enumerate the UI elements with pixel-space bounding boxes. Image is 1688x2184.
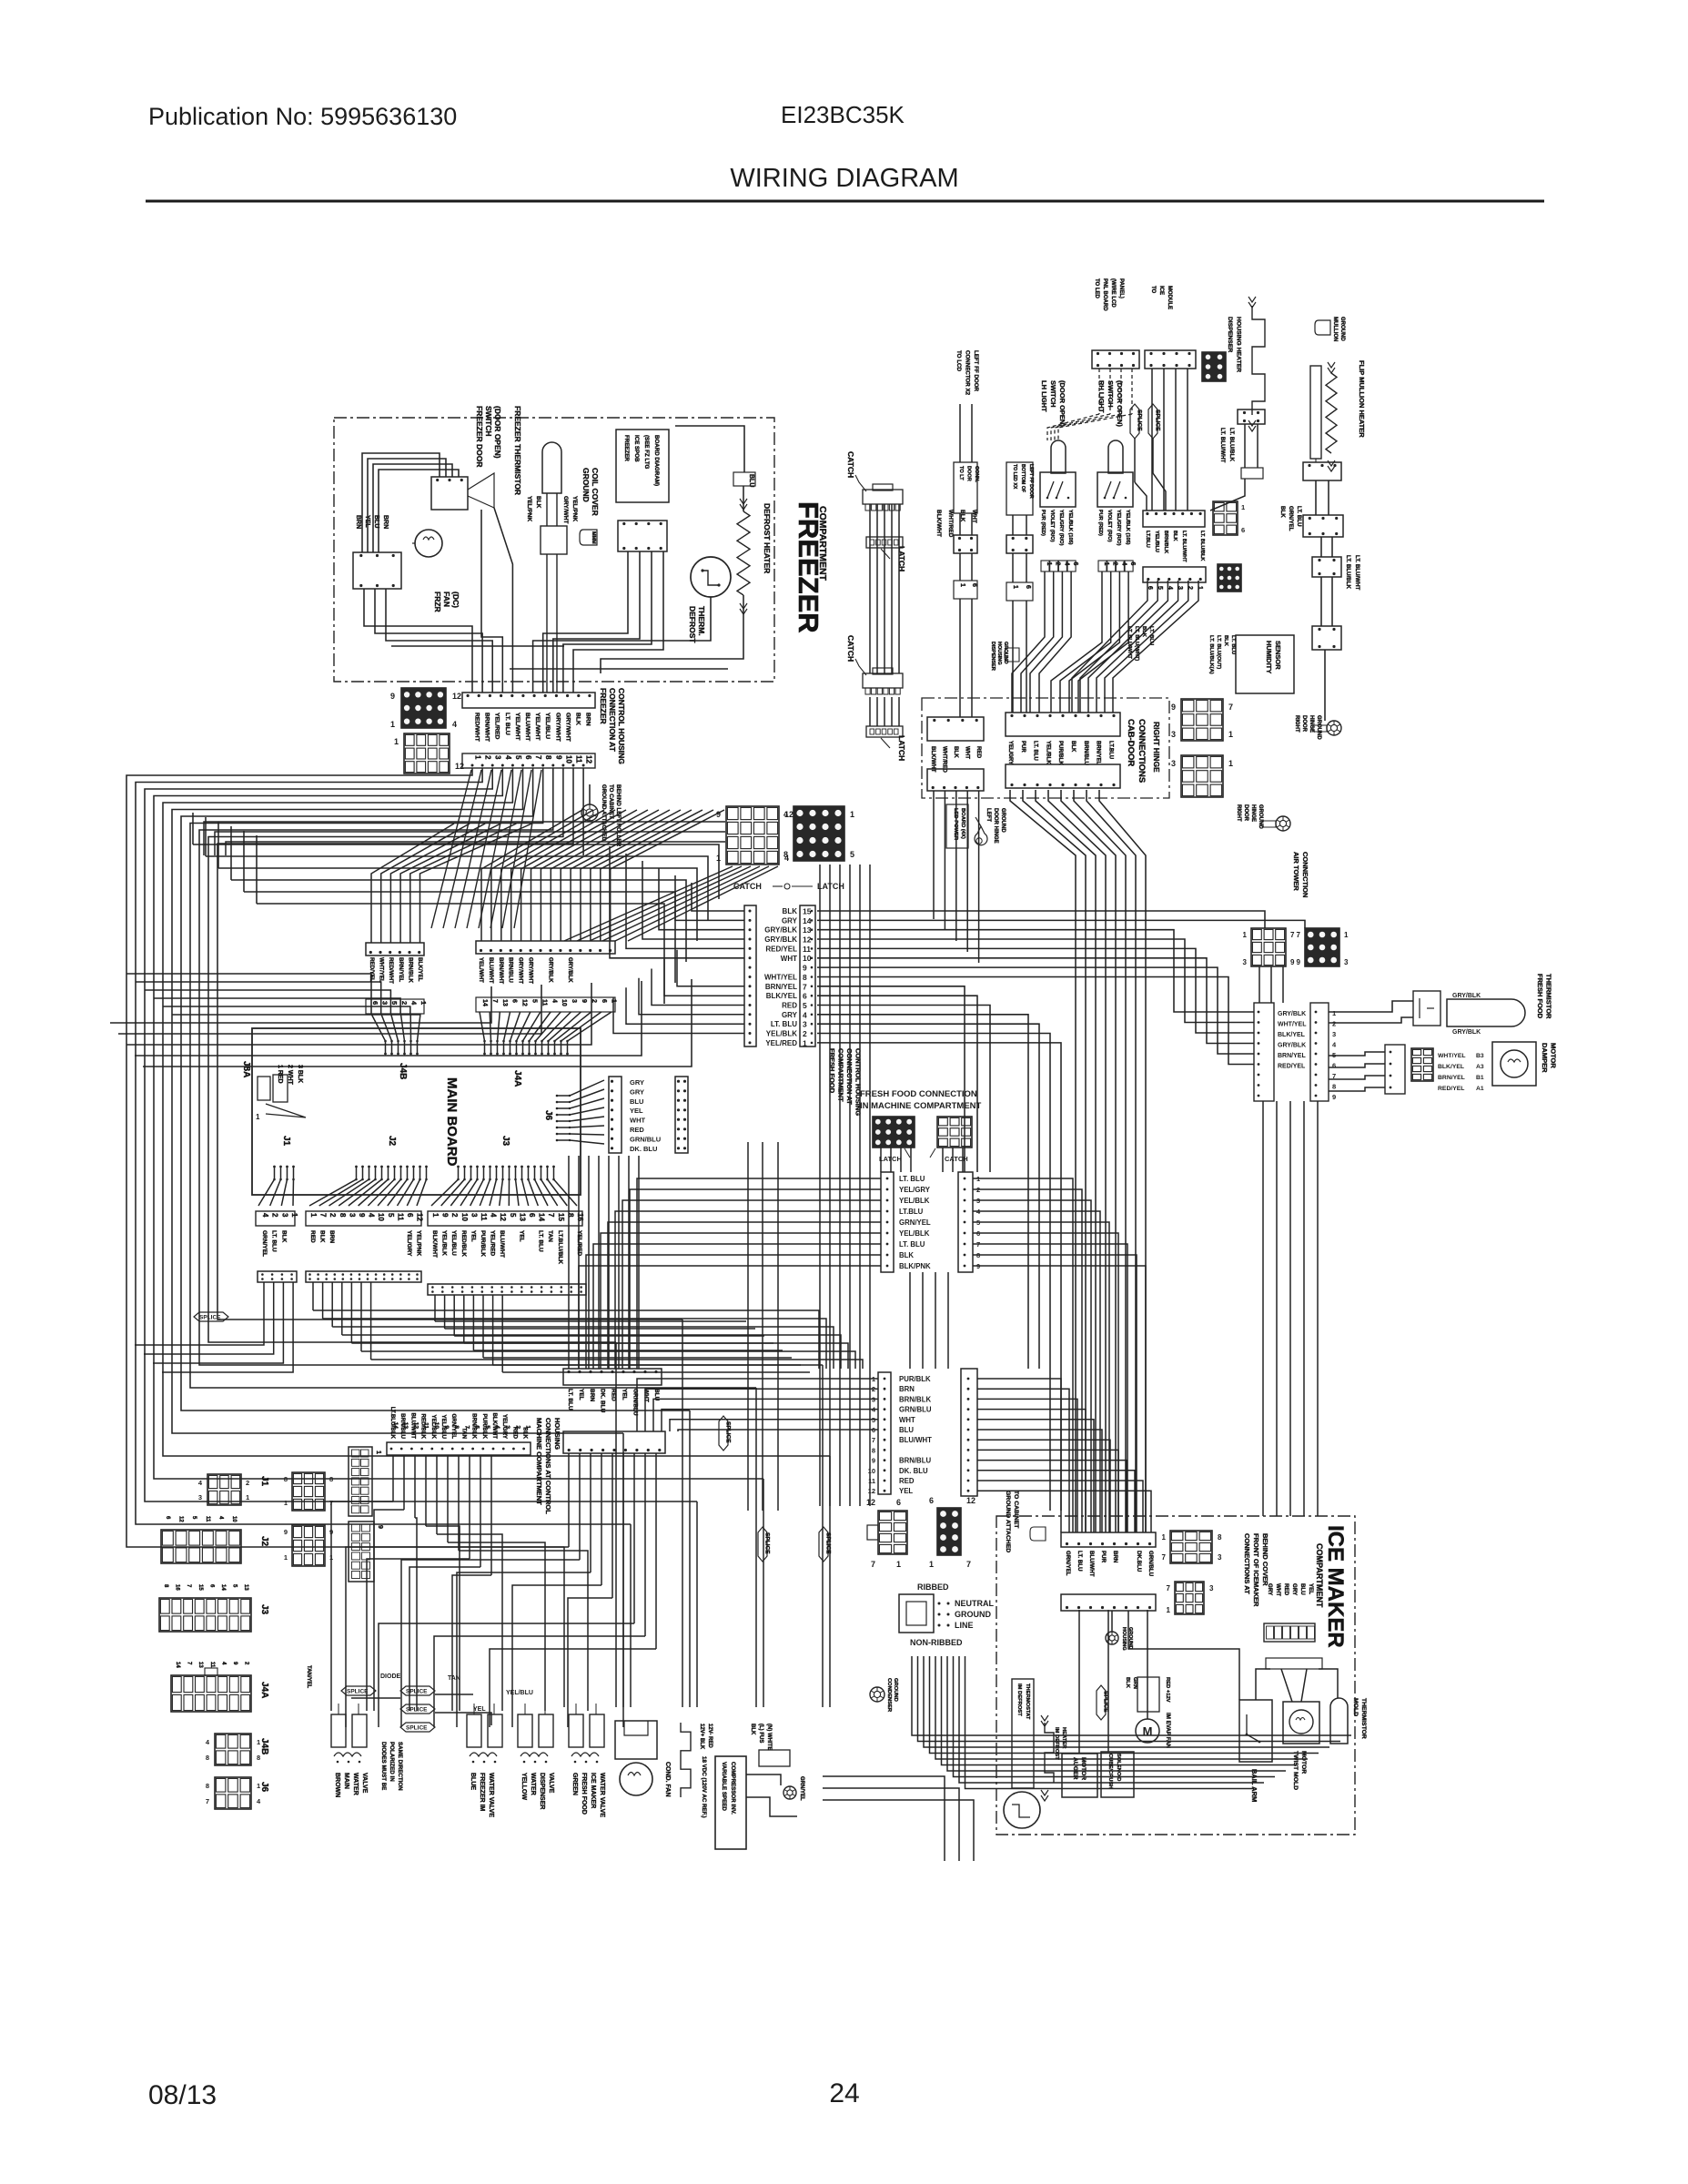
svg-text:GROUND: GROUND (1339, 317, 1345, 341)
svg-text:J2: J2 (387, 1136, 397, 1147)
svg-text:4: 4 (803, 1010, 807, 1019)
svg-text:RIGHT: RIGHT (1236, 804, 1241, 822)
svg-text:(DOOR OPEN): (DOOR OPEN) (493, 406, 502, 459)
svg-text:LT.BLU/BLK: LT.BLU/BLK (557, 1230, 563, 1264)
svg-text:11: 11 (480, 1213, 488, 1221)
svg-text:12: 12 (455, 762, 464, 771)
svg-text:GRY/BLK: GRY/BLK (1452, 1029, 1481, 1036)
svg-text:10: 10 (868, 1467, 875, 1475)
svg-text:SPLICE: SPLICE (199, 1315, 221, 1321)
svg-text:PUR (RED): PUR (RED) (1040, 510, 1046, 536)
svg-text:BLU: BLU (748, 474, 754, 487)
svg-text:9: 9 (390, 692, 395, 701)
svg-text:GRN/BLU: GRN/BLU (1147, 1551, 1154, 1577)
svg-text:BLU: BLU (630, 1097, 643, 1106)
svg-text:14: 14 (538, 1213, 546, 1221)
svg-text:YEL/GRY: YEL/GRY (899, 1186, 931, 1194)
svg-text:FREEZER THERMISTOR: FREEZER THERMISTOR (513, 406, 522, 495)
svg-text:THERMISTOR: THERMISTOR (1360, 1698, 1367, 1739)
svg-text:BLK/WHT: BLK/WHT (935, 510, 942, 537)
svg-text:YEL/GRY: YEL/GRY (1007, 741, 1013, 764)
svg-text:CATCH: CATCH (945, 1155, 968, 1163)
svg-text:YEL/GRY (R/O): YEL/GRY (R/O) (1058, 510, 1064, 546)
svg-text:SWITCH: SWITCH (1049, 380, 1057, 408)
svg-text:PUR (RED): PUR (RED) (1097, 510, 1103, 536)
svg-text:1: 1 (284, 1553, 288, 1562)
svg-text:2: 2 (1055, 562, 1061, 566)
svg-text:BLK: BLK (1141, 626, 1147, 638)
svg-text:7: 7 (534, 755, 542, 760)
svg-text:3: 3 (1332, 1030, 1336, 1038)
svg-text:1: 1 (284, 1499, 288, 1507)
svg-text:6: 6 (601, 999, 607, 1003)
svg-text:BLK: BLK (783, 907, 798, 915)
svg-text:BOARD DIAGRAM): BOARD DIAGRAM) (653, 435, 660, 486)
svg-text:1: 1 (716, 854, 721, 863)
svg-text:08/13: 08/13 (148, 2080, 217, 2110)
svg-text:DK. BLU: DK. BLU (630, 1145, 657, 1153)
svg-text:J2: J2 (259, 1536, 269, 1547)
svg-text:9: 9 (1297, 958, 1301, 966)
svg-text:14: 14 (803, 916, 812, 925)
svg-text:8: 8 (803, 973, 807, 982)
svg-text:BRN: BRN (1112, 1551, 1118, 1563)
svg-text:HEATER: HEATER (1061, 1727, 1066, 1749)
svg-text:LT.BLU: LT.BLU (899, 1208, 924, 1216)
svg-text:4: 4 (490, 1213, 498, 1218)
svg-text:Publication No: 5995636130: Publication No: 5995636130 (148, 103, 457, 130)
svg-text:6: 6 (371, 1001, 379, 1005)
svg-text:7: 7 (319, 1213, 328, 1218)
svg-text:IM DEFROST: IM DEFROST (1016, 1683, 1022, 1716)
svg-text:BLK: BLK (1172, 531, 1178, 541)
svg-text:COMPARTMENT: COMPARTMENT (837, 1048, 845, 1102)
svg-text:WATER VALVE: WATER VALVE (488, 1773, 494, 1817)
svg-text:(DC): (DC) (451, 591, 460, 608)
svg-text:WHT: WHT (630, 1117, 645, 1125)
svg-text:GREEN: GREEN (571, 1773, 578, 1795)
svg-text:SPLICE: SPLICE (347, 1689, 369, 1695)
svg-text:3: 3 (1218, 1553, 1222, 1562)
svg-text:LT. BLU: LT. BLU (1076, 1551, 1083, 1572)
svg-text:DISPENSER: DISPENSER (1227, 317, 1233, 352)
svg-text:SPLICE: SPLICE (725, 1421, 732, 1443)
svg-text:LT. BLU/BLK: LT. BLU/BLK (1228, 428, 1235, 462)
svg-text:VALVE: VALVE (548, 1773, 554, 1794)
svg-text:1: 1 (1344, 931, 1349, 939)
svg-text:9: 9 (443, 1425, 450, 1429)
svg-text:11: 11 (803, 945, 811, 954)
svg-text:RED: RED (782, 1002, 797, 1010)
svg-text:12V- RED: 12V- RED (707, 1724, 713, 1748)
svg-text:BRN: BRN (382, 515, 389, 529)
svg-text:1: 1 (959, 583, 965, 587)
svg-text:LT.BLU: LT.BLU (1107, 741, 1113, 759)
svg-text:GRY/BLK: GRY/BLK (1452, 993, 1481, 999)
svg-text:GRY: GRY (630, 1087, 644, 1096)
svg-text:3: 3 (494, 755, 502, 760)
svg-text:YEL/RED: YEL/RED (765, 1039, 797, 1047)
svg-text:12: 12 (803, 935, 812, 945)
svg-text:2: 2 (514, 1425, 521, 1429)
svg-text:VIOLET (R/O): VIOLET (R/O) (1049, 510, 1055, 542)
svg-text:J3: J3 (259, 1604, 269, 1615)
svg-text:FREEZER: FREEZER (623, 435, 630, 461)
svg-text:2: 2 (591, 999, 597, 1003)
svg-text:10: 10 (561, 999, 567, 1006)
svg-text:GROUND: GROUND (893, 1678, 898, 1702)
svg-text:GRY: GRY (630, 1078, 644, 1087)
svg-text:WHT: WHT (1275, 1583, 1281, 1596)
svg-text:YEL/BLU: YEL/BLU (450, 1230, 457, 1256)
svg-text:J4A: J4A (259, 1682, 269, 1698)
svg-text:CONNECTIONS AT: CONNECTIONS AT (1243, 1533, 1251, 1594)
svg-text:10: 10 (460, 1213, 469, 1221)
svg-text:J6: J6 (543, 1110, 553, 1121)
svg-text:VIOLET (R/O): VIOLET (R/O) (1107, 510, 1112, 542)
svg-text:HINGE: HINGE (1250, 804, 1256, 822)
svg-text:LT. BLU/WHT: LT. BLU/WHT (1181, 531, 1187, 562)
svg-text:GRN: GRN (1132, 1677, 1137, 1689)
svg-text:WATER: WATER (352, 1773, 359, 1795)
svg-text:YEL: YEL (1308, 1583, 1314, 1594)
svg-text:1: 1 (419, 1001, 428, 1005)
svg-text:GRY/WHT: GRY/WHT (528, 957, 534, 984)
svg-text:2 WHT: 2 WHT (287, 1065, 293, 1086)
svg-text:HOUSING HEATER: HOUSING HEATER (1236, 317, 1242, 372)
svg-text:1: 1 (1228, 759, 1233, 768)
svg-text:CONNECTION: CONNECTION (1301, 852, 1309, 897)
svg-text:FREEZER IM: FREEZER IM (479, 1773, 485, 1812)
svg-text:11: 11 (209, 1662, 215, 1668)
svg-text:LT. BLU: LT. BLU (504, 713, 510, 735)
svg-text:GROUND: GROUND (581, 468, 591, 502)
svg-text:GRN/BLU: GRN/BLU (630, 1135, 661, 1143)
svg-text:1: 1 (290, 1213, 298, 1218)
svg-text:YEL/WHT: YEL/WHT (478, 957, 484, 983)
svg-text:2: 2 (1112, 562, 1118, 566)
svg-text:COMPRESSOR INV.: COMPRESSOR INV. (730, 1762, 736, 1815)
svg-text:1: 1 (309, 1213, 318, 1218)
svg-text:WHT/YEL: WHT/YEL (1278, 1022, 1307, 1028)
svg-text:1: 1 (257, 1782, 260, 1790)
svg-text:24: 24 (829, 2078, 859, 2108)
svg-text:10: 10 (377, 1213, 385, 1221)
svg-text:9: 9 (1171, 703, 1176, 712)
svg-text:TWIST MOLD: TWIST MOLD (1292, 1751, 1299, 1790)
svg-text:NEUTRAL: NEUTRAL (955, 1599, 994, 1608)
svg-text:LT. BLU/BLK(A): LT. BLU/BLK(A) (1208, 635, 1214, 674)
svg-text:YEL/GRY (R/O): YEL/GRY (R/O) (1116, 510, 1121, 546)
svg-text:1: 1 (896, 1560, 901, 1569)
svg-text:BRN: BRN (899, 1385, 915, 1393)
svg-text:CONNECTIONS: CONNECTIONS (1137, 719, 1147, 783)
svg-text:7: 7 (803, 982, 807, 991)
svg-text:MULLION: MULLION (1332, 317, 1338, 341)
svg-text:ICE SPOB: ICE SPOB (633, 435, 640, 462)
svg-text:CONNECTION AT: CONNECTION AT (608, 688, 617, 753)
svg-text:3: 3 (470, 1213, 478, 1218)
svg-text:RED: RED (611, 1389, 617, 1401)
svg-text:LT. BLU: LT. BLU (538, 1230, 544, 1252)
svg-text:3: 3 (571, 999, 577, 1003)
svg-text:BLK/PNK: BLK/PNK (899, 1262, 931, 1270)
svg-text:8: 8 (453, 1425, 460, 1429)
svg-text:6: 6 (1241, 526, 1245, 534)
svg-text:YEL: YEL (578, 1389, 584, 1400)
svg-text:BLK: BLK (319, 1230, 326, 1243)
svg-text:BLK/YEL: BLK/YEL (1278, 1032, 1306, 1038)
svg-text:BLK/YEL: BLK/YEL (766, 992, 797, 1000)
svg-text:LT. BLU/WHT: LT. BLU/WHT (1127, 626, 1132, 659)
svg-text:9: 9 (1290, 958, 1295, 966)
svg-text:1: 1 (431, 1213, 440, 1218)
svg-text:BLU/WHT: BLU/WHT (899, 1436, 932, 1444)
svg-text:3: 3 (1171, 730, 1176, 739)
svg-text:1: 1 (375, 1451, 381, 1454)
svg-text:3: 3 (1171, 759, 1176, 768)
svg-text:FLIP MULLION HEATER: FLIP MULLION HEATER (1358, 360, 1366, 438)
svg-text:7: 7 (1297, 931, 1301, 939)
svg-text:4: 4 (494, 1425, 500, 1429)
svg-text:WHT/RED: WHT/RED (947, 510, 954, 538)
svg-text:RED: RED (1283, 1583, 1289, 1596)
svg-text:YEL: YEL (622, 1389, 628, 1400)
svg-text:RIGHT: RIGHT (1294, 715, 1299, 733)
svg-text:WHT: WHT (642, 1389, 649, 1402)
svg-text:BLU/WHT: BLU/WHT (1088, 1551, 1095, 1577)
svg-text:ICE: ICE (1158, 286, 1164, 295)
svg-text:YEL/WHT: YEL/WHT (534, 713, 541, 741)
svg-text:SPLICE: SPLICE (406, 1707, 428, 1714)
svg-text:6: 6 (929, 1496, 934, 1505)
svg-text:GRY/BLK: GRY/BLK (764, 926, 797, 935)
svg-text:YEL/BLU: YEL/BLU (1154, 531, 1159, 552)
svg-text:16: 16 (576, 1213, 584, 1221)
svg-text:5: 5 (509, 1213, 517, 1218)
svg-text:GRY/WHT: GRY/WHT (564, 713, 571, 743)
svg-text:4: 4 (368, 1213, 376, 1218)
svg-text:YEL/BLU: YEL/BLU (506, 1690, 533, 1696)
svg-text:WHT: WHT (899, 1416, 915, 1424)
svg-text:BROWN: BROWN (334, 1773, 340, 1797)
svg-text:15: 15 (557, 1213, 565, 1221)
svg-text:RED: RED (899, 1477, 915, 1485)
svg-text:SWITCH: SWITCH (484, 406, 493, 437)
svg-text:7: 7 (966, 1560, 971, 1569)
svg-text:BRN/YEL: BRN/YEL (765, 983, 797, 991)
svg-text:HOUSING: HOUSING (996, 642, 1002, 665)
svg-text:CONNECTIONS AT CONTROL: CONNECTIONS AT CONTROL (544, 1418, 552, 1514)
svg-text:CONTROL HOUSING: CONTROL HOUSING (617, 688, 626, 764)
svg-text:ICE MAKER: ICE MAKER (590, 1773, 596, 1808)
svg-text:GROUND: GROUND (1316, 715, 1321, 740)
svg-text:IM DEFROST: IM DEFROST (1054, 1727, 1059, 1760)
svg-text:LT. BLU: LT. BLU (1033, 741, 1038, 761)
svg-text:5: 5 (514, 755, 522, 760)
svg-text:YEL/GRY: YEL/GRY (406, 1230, 412, 1257)
svg-text:LT. BLU/WHT: LT. BLU/WHT (1354, 555, 1360, 591)
svg-text:RED/YEL: RED/YEL (1278, 1064, 1306, 1070)
svg-text:1: 1 (394, 737, 399, 746)
svg-text:14: 14 (220, 1584, 226, 1591)
svg-text:CATCH: CATCH (733, 882, 762, 891)
svg-text:BLU: BLU (899, 1426, 914, 1434)
svg-text:PUR/BLK: PUR/BLK (899, 1375, 931, 1383)
svg-text:15: 15 (803, 907, 812, 916)
svg-text:10: 10 (433, 1422, 440, 1430)
svg-text:BRN/BLK: BRN/BLK (1163, 531, 1168, 553)
svg-text:8: 8 (206, 1754, 209, 1762)
svg-text:TO LED: TO LED (1094, 278, 1099, 299)
svg-text:1: 1 (803, 1038, 807, 1047)
svg-text:TO CABINET: TO CABINET (1013, 1491, 1019, 1529)
svg-text:7: 7 (872, 1436, 875, 1444)
svg-text:7: 7 (547, 1213, 555, 1218)
svg-text:1: 1 (1241, 503, 1245, 511)
svg-text:6: 6 (528, 1213, 536, 1218)
svg-text:1: 1 (474, 755, 482, 760)
svg-text:9: 9 (284, 1528, 288, 1536)
svg-text:DAMPER: DAMPER (1541, 1043, 1549, 1073)
svg-text:LT. BLU: LT. BLU (1148, 626, 1154, 645)
svg-text:THERM.: THERM. (697, 606, 706, 636)
svg-text:B3: B3 (1476, 1053, 1484, 1059)
svg-text:FREEZER DOOR: FREEZER DOOR (475, 406, 484, 468)
svg-text:GRY: GRY (782, 1011, 798, 1019)
svg-text:1: 1 (256, 1113, 260, 1121)
svg-text:1: 1 (1103, 562, 1109, 566)
svg-text:BRN/BLU: BRN/BLU (899, 1457, 931, 1465)
svg-text:DK.BLU: DK.BLU (1136, 1551, 1142, 1572)
svg-text:SPLICE: SPLICE (1155, 409, 1161, 431)
svg-text:DOOR: DOOR (1243, 804, 1248, 822)
svg-text:BRN/WHT: BRN/WHT (484, 713, 490, 743)
svg-text:YEL/BLK: YEL/BLK (899, 1197, 930, 1205)
svg-text:BRN/BLU: BRN/BLU (1083, 741, 1088, 765)
svg-text:DIODES MUST BE: DIODES MUST BE (380, 1742, 387, 1790)
svg-text:1: 1 (850, 810, 854, 819)
svg-text:FRESH FOOD: FRESH FOOD (1536, 974, 1544, 1019)
svg-text:MMM: MMM (591, 531, 596, 544)
svg-text:SPLICE: SPLICE (406, 1725, 428, 1732)
svg-text:4: 4 (551, 999, 557, 1003)
svg-text:5: 5 (484, 1425, 490, 1429)
svg-text:12: 12 (966, 1496, 975, 1505)
svg-text:1: 1 (929, 1560, 934, 1569)
svg-text:RED +12V: RED +12V (1165, 1677, 1170, 1703)
svg-text:8: 8 (1218, 1533, 1222, 1542)
svg-text:PUR/BLK: PUR/BLK (480, 1230, 486, 1257)
svg-text:BLK/YEL: BLK/YEL (1438, 1064, 1464, 1070)
svg-text:A1: A1 (1476, 1086, 1484, 1092)
svg-text:6: 6 (803, 992, 807, 1001)
svg-text:7: 7 (871, 1560, 875, 1569)
svg-text:GRY/BLK: GRY/BLK (547, 957, 553, 983)
svg-text:LEFT FF DOOR: LEFT FF DOOR (973, 350, 979, 392)
svg-text:LT. BLU(OUT): LT. BLU(OUT) (1216, 635, 1221, 669)
svg-text:WIRING DIAGRAM: WIRING DIAGRAM (730, 164, 958, 193)
svg-text:DOOR: DOOR (1301, 715, 1307, 733)
svg-text:GRY/BLK: GRY/BLK (1278, 1011, 1306, 1017)
svg-text:6: 6 (474, 1425, 480, 1429)
svg-text:LEFT: LEFT (986, 808, 991, 822)
svg-text:SENSOR: SENSOR (1274, 641, 1282, 670)
svg-text:9: 9 (803, 964, 807, 973)
svg-text:LT. BLU/WHT: LT. BLU/WHT (1219, 428, 1226, 463)
svg-text:DIODE: DIODE (380, 1673, 401, 1680)
svg-text:9: 9 (441, 1213, 450, 1218)
svg-text:YEL/PNK: YEL/PNK (571, 496, 578, 521)
svg-text:(DOOR OPEN): (DOOR OPEN) (1116, 380, 1124, 427)
svg-text:YEL/RED: YEL/RED (494, 713, 500, 740)
svg-text:GROUND: GROUND (955, 1610, 991, 1619)
svg-text:WHT: WHT (781, 955, 797, 963)
svg-text:BRN/BLU: BRN/BLU (508, 957, 514, 983)
svg-text:LATCH: LATCH (897, 735, 906, 761)
svg-text:IN MACHINE COMPARTMENT: IN MACHINE COMPARTMENT (860, 1101, 982, 1111)
svg-text:1 RED: 1 RED (277, 1065, 283, 1084)
svg-text:7: 7 (463, 1425, 470, 1429)
svg-text:FAN: FAN (442, 591, 451, 607)
svg-text:3: 3 (803, 1020, 807, 1029)
svg-text:LT. BLU(WHT): LT. BLU(WHT) (1134, 626, 1139, 661)
svg-text:RED/YEL: RED/YEL (765, 945, 797, 953)
svg-text:FRZR: FRZR (433, 591, 442, 612)
svg-text:RED/BLK: RED/BLK (460, 1230, 467, 1257)
svg-text:2: 2 (271, 1213, 279, 1218)
svg-text:PNL BOARD: PNL BOARD (1102, 278, 1107, 311)
svg-text:ICE MAKER: ICE MAKER (1323, 1525, 1348, 1648)
svg-text:LT. BLU: LT. BLU (271, 1230, 278, 1252)
svg-text:BLK: BLK (1070, 741, 1076, 753)
svg-text:LED POWER: LED POWER (953, 808, 958, 841)
svg-text:2: 2 (484, 755, 492, 760)
svg-text:GRY: GRY (1291, 1583, 1298, 1596)
svg-text:TO LCD: TO LCD (955, 350, 962, 371)
svg-text:BRN/YEL: BRN/YEL (1096, 741, 1101, 765)
svg-text:DK. BLU: DK. BLU (600, 1389, 606, 1413)
svg-text:(WIRE LCD: (WIRE LCD (1110, 278, 1116, 308)
svg-text:7: 7 (1162, 1553, 1167, 1562)
svg-text:RED/YEL: RED/YEL (369, 957, 375, 982)
svg-text:BEHIND COVER: BEHIND COVER (1261, 1533, 1269, 1586)
svg-text:COIL COVER: COIL COVER (591, 468, 600, 516)
svg-text:LT. BLU: LT. BLU (899, 1240, 925, 1249)
svg-text:BLK: BLK (1125, 1677, 1130, 1689)
svg-text:RIGHT HINGE: RIGHT HINGE (1152, 722, 1161, 773)
svg-text:FRONT OF ICEMAKER: FRONT OF ICEMAKER (1252, 1533, 1260, 1607)
svg-text:WATER VALVE: WATER VALVE (599, 1773, 605, 1817)
svg-text:12: 12 (452, 692, 461, 701)
svg-text:LT. BLU/BLK: LT. BLU/BLK (1199, 531, 1205, 561)
svg-text:RED: RED (630, 1126, 644, 1134)
svg-text:BRN: BRN (589, 1389, 595, 1401)
svg-text:8: 8 (329, 1475, 333, 1483)
svg-text:J4B: J4B (398, 1063, 408, 1079)
svg-text:9: 9 (716, 810, 721, 819)
svg-text:12: 12 (412, 1422, 419, 1430)
svg-text:BLK/YEL: BLK/YEL (417, 957, 423, 982)
svg-text:8: 8 (783, 850, 788, 859)
svg-text:3: 3 (381, 1001, 389, 1005)
svg-text:8: 8 (257, 1754, 260, 1762)
svg-text:BLK: BLK (575, 713, 581, 725)
svg-text:1: 1 (1167, 1606, 1171, 1614)
svg-text:YEL/BLK (105): YEL/BLK (105) (1067, 510, 1073, 545)
svg-text:BOTTOM OF: BOTTOM OF (1020, 464, 1026, 492)
svg-text:WHT/YEL: WHT/YEL (1438, 1053, 1466, 1059)
